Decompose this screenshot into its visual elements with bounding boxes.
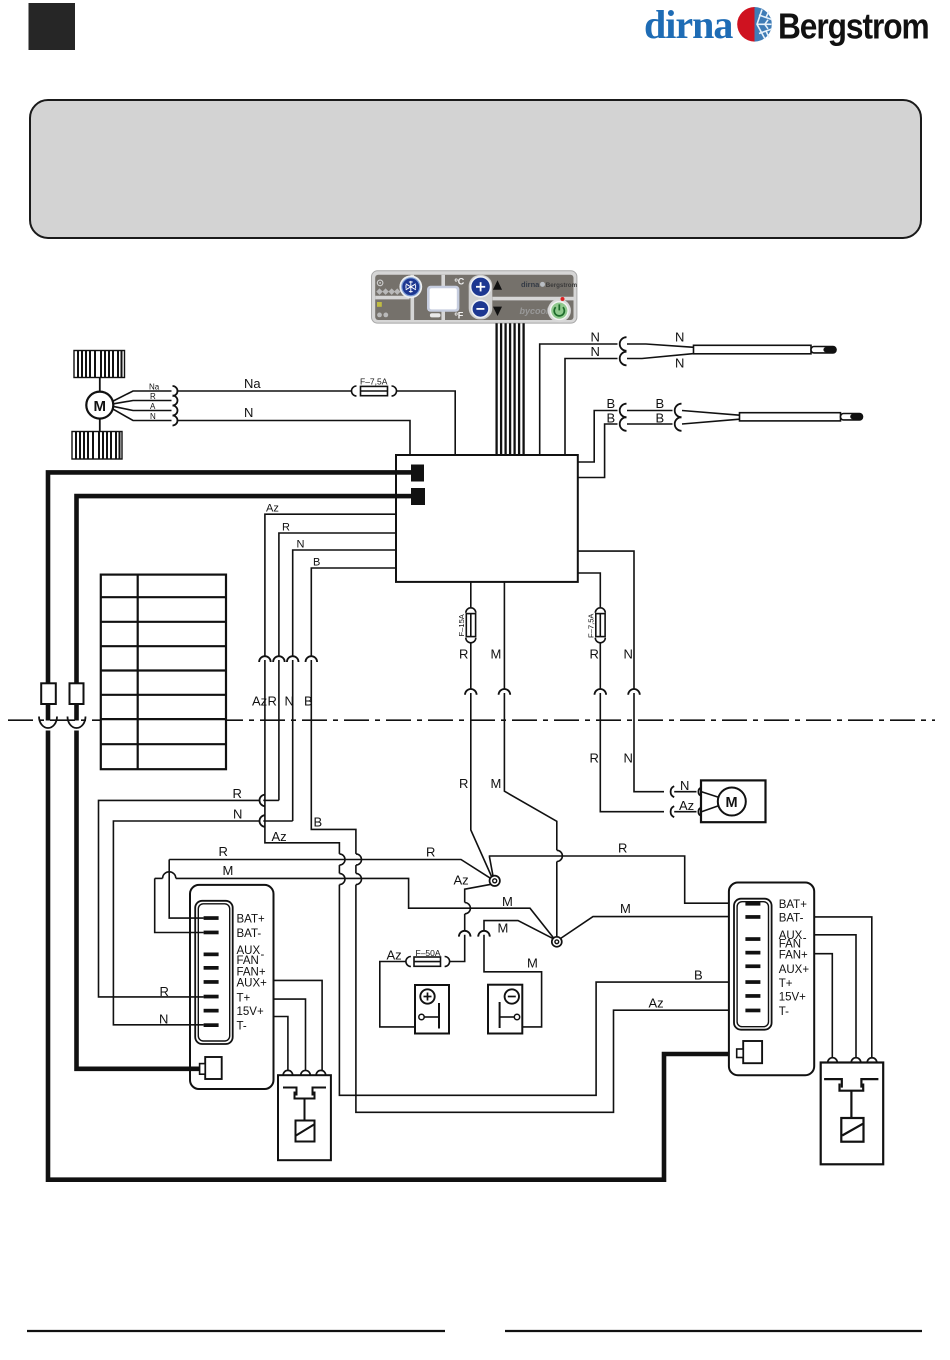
- plus-minus column: [469, 275, 493, 320]
- wire B staircase from control unit: [311, 568, 396, 656]
- svg-text:dirna: dirna: [644, 2, 733, 47]
- connector arc on M drop: [478, 931, 490, 937]
- panel icons bottom-left: [377, 313, 382, 318]
- svg-text:B: B: [313, 557, 320, 569]
- plus button: [471, 277, 491, 297]
- wire R junction to stair: [263, 799, 279, 801]
- left relay K1: [278, 1070, 331, 1160]
- wire left block 15V+ to relay: [274, 1017, 288, 1071]
- blower tap connectors: [173, 386, 178, 426]
- svg-text:A: A: [150, 402, 156, 411]
- svg-text:R: R: [219, 844, 228, 859]
- svg-text:BAT+: BAT+: [237, 913, 266, 925]
- footer rule right: [505, 1330, 922, 1332]
- svg-text:N: N: [624, 751, 633, 766]
- svg-text:R: R: [459, 647, 468, 662]
- wire Az fuse to plus switch: [380, 962, 415, 1027]
- svg-text:N: N: [675, 330, 684, 345]
- B sensor connectors pair 1: [620, 404, 682, 431]
- wire Na motor to fuse F-7,5A: [177, 390, 353, 392]
- svg-text:N: N: [159, 1012, 168, 1027]
- N temperature probe: [694, 345, 837, 354]
- wire right block FAN+ to relay: [814, 954, 832, 1058]
- svg-text:B: B: [694, 968, 703, 983]
- svg-text:F–50A: F–50A: [416, 948, 441, 958]
- wire N junction to stair: [263, 820, 292, 822]
- svg-text:R: R: [233, 786, 242, 801]
- wire M left run start: [155, 877, 163, 879]
- blower motor tap wires Na R A N: [112, 391, 171, 421]
- power LED red: [561, 297, 565, 301]
- logo globe icon: [737, 7, 772, 42]
- svg-text:N: N: [680, 778, 689, 793]
- wire R1 fuse to connector: [470, 643, 472, 689]
- svg-text:M: M: [94, 398, 107, 415]
- svg-text:Az: Az: [266, 503, 279, 515]
- wire R2 control unit to fuse: [578, 573, 601, 607]
- hop M feed over R wire: [557, 850, 563, 861]
- wire Az staircase from control unit: [265, 514, 396, 656]
- wire R1 to node A: [471, 693, 492, 878]
- svg-text:Az: Az: [252, 694, 267, 709]
- left connector block J1: [190, 885, 274, 1089]
- svg-text:B: B: [607, 411, 616, 426]
- wire Az condenser inside: [702, 806, 719, 812]
- right relay K2: [821, 1058, 884, 1165]
- svg-text:Az: Az: [387, 948, 402, 963]
- wire R left run to node A: [169, 860, 490, 879]
- svg-text:M: M: [726, 795, 738, 811]
- svg-text:B: B: [314, 815, 323, 830]
- svg-text:N: N: [244, 405, 253, 420]
- wire R2 to condenser motor: [600, 693, 664, 812]
- svg-text:F–7,5A: F–7,5A: [587, 613, 596, 638]
- wire M left run to node B: [176, 878, 554, 938]
- wire M to node B: [504, 693, 556, 850]
- wire R to left block T+: [99, 800, 260, 997]
- svg-text:dirna: dirna: [521, 280, 540, 289]
- wire M control unit to connector: [503, 582, 505, 689]
- svg-text:Na: Na: [244, 376, 261, 391]
- fuse F-7,5A vertical: [595, 608, 605, 643]
- svg-text:M: M: [223, 863, 234, 878]
- svg-text:-: -: [803, 933, 807, 945]
- wire M drop to left block BAT-: [155, 878, 204, 932]
- svg-text:N: N: [675, 356, 684, 371]
- wire Na fuse to control unit: [396, 391, 455, 455]
- hop B over R wire: [356, 854, 362, 865]
- svg-text:R: R: [160, 984, 169, 999]
- svg-text:R: R: [618, 841, 627, 856]
- svg-text:B: B: [656, 411, 665, 426]
- J2 pins: [745, 902, 760, 1012]
- thick wire connector arc 1: [39, 717, 57, 729]
- svg-text:Bergstrom: Bergstrom: [546, 282, 578, 289]
- wire B2 sensor to probe: [682, 419, 740, 424]
- wire B1 control unit to sensor: [578, 411, 618, 463]
- svg-text:AUX+: AUX+: [779, 964, 810, 976]
- panel LED yellow: [377, 302, 382, 307]
- fuse F-50A horizontal: [406, 957, 450, 967]
- svg-text:M: M: [498, 921, 509, 936]
- minus button: [472, 300, 489, 317]
- svg-text:N: N: [591, 330, 600, 345]
- thick battery wire 2: [77, 496, 412, 683]
- hop B over M wire: [356, 873, 362, 884]
- control unit box: [396, 455, 578, 582]
- hop Az over M wire: [339, 873, 345, 884]
- TEMP pill: [430, 313, 441, 317]
- control panel body: [372, 271, 577, 323]
- wire B2 sensor segment: [627, 423, 673, 425]
- control unit power terminal 1: [411, 465, 424, 482]
- connector arc on R junction: [259, 795, 265, 807]
- svg-text:M: M: [502, 894, 513, 909]
- wire M below connector to switch: [484, 935, 542, 1027]
- svg-text:N: N: [297, 539, 305, 551]
- svg-text:B: B: [607, 396, 616, 411]
- svg-text:R: R: [268, 694, 277, 709]
- panel icons snow row: [376, 288, 400, 295]
- thick wire connector block 2: [70, 683, 84, 704]
- svg-text:M: M: [620, 901, 631, 916]
- evaporator blower resistor bottom: [72, 432, 122, 460]
- connector arc on N junction: [259, 815, 265, 827]
- svg-text:N: N: [150, 412, 156, 421]
- wire left block T+ to relay: [274, 999, 306, 1071]
- hop M over R vertical: [163, 872, 176, 879]
- svg-text:M: M: [491, 776, 502, 791]
- svg-text:R: R: [590, 647, 599, 662]
- wire Az condenser segment: [674, 811, 696, 813]
- wire M node B to right block BAT-: [561, 917, 746, 939]
- thick wire connector block 1: [41, 683, 56, 704]
- svg-text:R: R: [590, 751, 599, 766]
- wire N to left block T-: [113, 821, 259, 1025]
- svg-text:F–15A: F–15A: [457, 613, 466, 636]
- svg-text:Az: Az: [649, 996, 664, 1011]
- footer rule left: [27, 1330, 445, 1332]
- fuse F-7,5A horizontal: [352, 386, 397, 396]
- svg-text:M: M: [491, 647, 502, 662]
- svg-text:Na: Na: [149, 383, 160, 392]
- connector arcs on staircase wires: [259, 656, 317, 662]
- svg-text:T+: T+: [237, 992, 251, 1004]
- evaporator blower resistor top: [74, 351, 125, 378]
- wire N condenser segment: [674, 791, 696, 793]
- wire Az below connector: [265, 660, 340, 854]
- panel icon timer: [377, 280, 383, 286]
- B temperature probe: [740, 413, 863, 421]
- svg-text:FAN: FAN: [237, 955, 259, 967]
- wire right block BAT- to relay: [814, 917, 872, 1058]
- hop Az over M horizontal: [465, 903, 471, 914]
- fuse F-15A vertical: [466, 608, 476, 643]
- J1 pins: [204, 916, 219, 1027]
- connector arcs on R1 M R2 N wires: [465, 689, 640, 695]
- wire N condenser inside: [702, 792, 719, 798]
- wire B below connector: [311, 660, 356, 854]
- plus switch box: [415, 985, 449, 1034]
- wire N1 sensor to control unit: [540, 344, 618, 455]
- wire left block AUX+ to relay: [274, 980, 323, 1070]
- svg-text:ºC: ºC: [455, 276, 465, 286]
- wire R staircase from control unit: [279, 533, 396, 656]
- svg-text:T+: T+: [779, 978, 793, 990]
- grey title box: [30, 100, 921, 238]
- wire B to bottom run: [356, 885, 746, 1113]
- wire N1 sensor segment: [627, 344, 694, 347]
- chassis dash-dot line: [8, 719, 935, 721]
- temperature display: [427, 286, 459, 312]
- J2 cable socket: [743, 1041, 762, 1063]
- condenser motor connectors: [671, 786, 702, 817]
- svg-text:Az: Az: [679, 798, 694, 813]
- panel separators: [375, 275, 573, 320]
- wire B1 sensor to probe: [682, 411, 740, 416]
- svg-text:Bergstrom: Bergstrom: [778, 7, 929, 47]
- wire N staircase from control unit: [293, 550, 396, 656]
- wire R2 fuse to connector: [599, 643, 601, 689]
- svg-text:BAT-: BAT-: [779, 912, 804, 924]
- wire R below connector: [278, 660, 280, 800]
- svg-text:M: M: [527, 956, 538, 971]
- wire N2 sensor to control unit: [565, 359, 618, 456]
- svg-text:15V+: 15V+: [237, 1006, 264, 1018]
- condenser motor M box: [701, 780, 766, 822]
- svg-text:AUX+: AUX+: [237, 977, 268, 989]
- wire R drop to left block BAT+: [169, 860, 203, 919]
- svg-text:Az: Az: [454, 873, 469, 888]
- svg-text:N: N: [624, 647, 633, 662]
- node B junction: [552, 937, 562, 947]
- N sensor connectors: [620, 337, 627, 365]
- thick battery wire 1: [48, 472, 737, 1179]
- svg-text:T-: T-: [237, 1021, 247, 1033]
- thick stub to terminal 2: [396, 494, 412, 499]
- J1 cable socket: [205, 1057, 222, 1079]
- svg-text:R: R: [282, 522, 290, 534]
- wire right block AUX to relay: [814, 935, 856, 1058]
- svg-text:N: N: [233, 807, 242, 822]
- svg-text:bycool: bycool: [520, 306, 550, 316]
- wire B1 sensor segment: [627, 410, 673, 412]
- ribbon cable to control unit: [497, 323, 524, 455]
- hop Az over R wire: [339, 854, 345, 865]
- wire N2 sensor segment: [627, 354, 694, 359]
- right connector block J2: [729, 883, 814, 1076]
- svg-text:15V+: 15V+: [779, 991, 806, 1003]
- wire Az to fuse F-50A: [449, 935, 465, 962]
- svg-text:ºF: ºF: [455, 310, 464, 320]
- wire M node B to minus switch: [484, 921, 554, 939]
- evaporator blower motor M: [86, 378, 113, 432]
- wire N control unit to connector: [578, 551, 634, 689]
- wire Az node A down: [465, 884, 491, 902]
- svg-text:BAT+: BAT+: [779, 899, 808, 911]
- up triangle: [493, 280, 502, 290]
- wire B2 control unit to sensor: [578, 424, 618, 478]
- svg-text:B: B: [304, 694, 313, 709]
- down triangle: [493, 307, 502, 316]
- wire R1 control unit to fuse F-15A: [470, 582, 472, 607]
- svg-text:R: R: [459, 776, 468, 791]
- minus switch box: [488, 985, 522, 1034]
- wire N to condenser motor: [634, 693, 664, 792]
- wire Az to bottom run: [339, 885, 745, 1096]
- snowflake button: [399, 275, 422, 298]
- svg-text:-: -: [261, 949, 265, 961]
- wire N below connector: [292, 660, 294, 821]
- svg-text:R: R: [426, 845, 435, 860]
- svg-text:N: N: [285, 694, 294, 709]
- wire Az hop segment mid: [464, 914, 466, 931]
- black corner square: [29, 3, 76, 50]
- wire B hop segment: [355, 865, 357, 873]
- wire N motor to control unit: [177, 421, 411, 456]
- wire Az hop segment: [338, 865, 340, 873]
- node A junction: [490, 876, 500, 886]
- control unit power terminal 2: [411, 488, 425, 505]
- thick stub to terminal 1: [396, 470, 412, 475]
- thick wire connector arc 2: [68, 717, 86, 729]
- svg-text:N: N: [591, 344, 600, 359]
- svg-text:BAT-: BAT-: [237, 928, 262, 940]
- svg-text:FAN+: FAN+: [779, 950, 808, 962]
- svg-text:Az: Az: [272, 829, 287, 844]
- svg-text:B: B: [656, 396, 665, 411]
- svg-text:F–7,5A: F–7,5A: [360, 376, 388, 386]
- power button: [548, 299, 571, 322]
- legend table: [101, 575, 226, 770]
- connector arc on Az drop: [459, 931, 471, 937]
- svg-text:R: R: [150, 392, 156, 401]
- svg-text:T-: T-: [779, 1006, 789, 1018]
- wire R node A to right block BAT+: [490, 856, 746, 903]
